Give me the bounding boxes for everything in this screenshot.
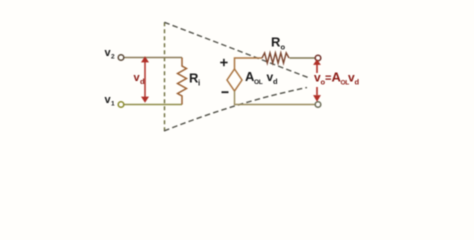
terminal output bottom [315, 102, 321, 108]
svg-text:o: o [281, 43, 286, 52]
wire v2 to Ri top [124, 57, 182, 59]
plus sign [220, 59, 227, 66]
op-amp boundary U1 (dashed triangle) [164, 22, 308, 131]
wire v1 to Ri bottom [124, 104, 182, 106]
svg-text:=: = [325, 73, 331, 85]
vd arrow (input differential voltage) [141, 56, 149, 103]
label v2 [105, 47, 116, 61]
dependent source AOL*vd (VCVS diamond) [227, 69, 242, 91]
svg-text:OL: OL [254, 79, 263, 86]
label AOL vd [245, 69, 278, 86]
label v1 [105, 94, 116, 108]
label vd [134, 72, 146, 86]
label Ri [189, 71, 200, 88]
minus sign [222, 91, 229, 93]
terminal v1 [118, 102, 124, 108]
svg-text:i: i [198, 79, 200, 88]
resistor Ri [178, 58, 187, 105]
terminal v2 [118, 55, 124, 61]
svg-text:d: d [273, 77, 278, 86]
vo up arrow [313, 59, 321, 73]
label vo=AOL vd [314, 70, 360, 87]
vo down arrow [313, 87, 321, 102]
wire diamond bottom to output [235, 91, 316, 105]
resistor Ro [262, 53, 289, 63]
svg-text:1: 1 [111, 101, 115, 108]
terminal output top [315, 55, 321, 61]
wire Ro to output terminal [290, 57, 316, 59]
wire diamond top to Ro [235, 58, 263, 69]
label Ro [271, 35, 286, 52]
svg-text:2: 2 [111, 54, 115, 61]
svg-text:R: R [271, 35, 281, 50]
svg-text:d: d [140, 77, 145, 86]
svg-text:d: d [355, 78, 360, 87]
